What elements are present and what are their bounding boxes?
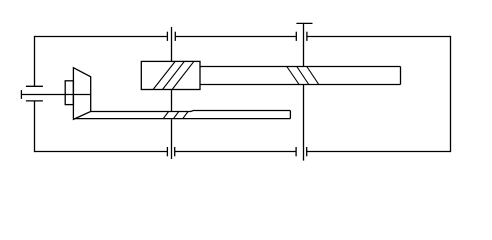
frame bottom edge segment right: [307, 151, 451, 153]
frame top edge segment right: [307, 36, 451, 38]
block hatch line 1: [153, 61, 175, 89]
shaft S2 vertical lower segment: [171, 119, 173, 159]
bearing left-wall bar lower: [26, 100, 43, 102]
shaft S3 vertical lower segment: [303, 85, 305, 161]
tube hatch line 3: [183, 112, 188, 119]
bearing top-left tick b: [174, 32, 176, 41]
bearing bottom-left tick b: [174, 147, 176, 156]
bearing bottom-left tick a: [166, 147, 168, 156]
rod hatch line 2: [297, 67, 309, 85]
frame bottom edge segment left: [35, 151, 168, 153]
shaft S3 top cap bar: [296, 22, 312, 24]
frame left edge upper segment: [34, 36, 36, 86]
rod right end edge: [400, 67, 402, 85]
shaft S1 horizontal: [21, 94, 90, 96]
rod top line: [200, 66, 401, 68]
hub rectangle on shaft S1: [65, 81, 73, 105]
frame top edge segment middle: [175, 36, 296, 38]
bearing top-right tick b: [306, 32, 308, 41]
block hatch line 2: [163, 61, 185, 89]
rod hatch line 1: [287, 67, 299, 85]
bearing top-left tick a: [166, 32, 168, 41]
shaft S1 end tick: [20, 90, 22, 99]
block hatch line 3: [172, 61, 194, 89]
rod bottom line: [200, 84, 401, 86]
bearing left-wall bar upper: [26, 85, 43, 87]
tube bottom line: [73, 118, 290, 120]
tube hatch line 1: [163, 112, 168, 119]
frame bottom edge segment middle: [175, 151, 296, 153]
frame top edge segment left: [35, 36, 168, 38]
shaft S2 vertical upper segment: [171, 27, 173, 61]
cone trapezoid: [73, 68, 90, 120]
rod hatch line 3: [307, 67, 319, 85]
frame right edge: [450, 36, 452, 152]
tube right end edge: [289, 111, 291, 119]
bearing bottom-right tick b: [306, 147, 308, 156]
hatched block rectangle on shaft S2: [141, 61, 200, 89]
tube hatch line 2: [174, 112, 179, 119]
bearing bottom-right tick a: [295, 147, 297, 156]
bearing top-right tick a: [295, 32, 297, 41]
shaft S3 vertical upper segment: [303, 23, 305, 66]
tube top line with step: [91, 111, 291, 112]
frame left edge lower segment: [34, 101, 36, 152]
shaft S2 vertical middle segment: [171, 90, 173, 112]
